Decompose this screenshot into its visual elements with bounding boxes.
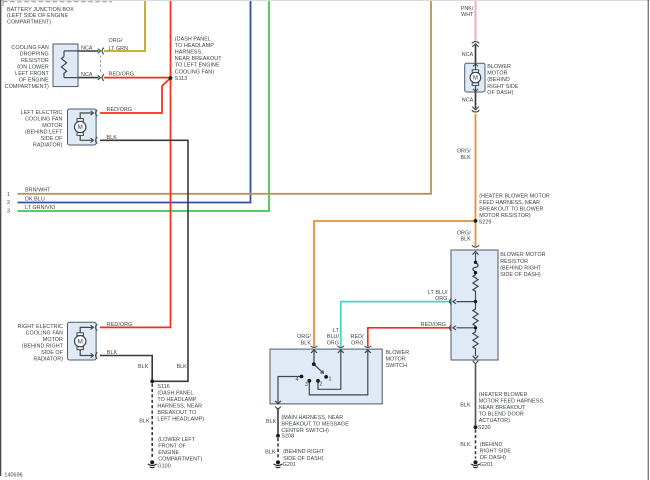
svg-text:RED/ORG: RED/ORG	[107, 107, 133, 113]
svg-text:ENGINE: ENGINE	[158, 450, 179, 456]
svg-text:BLK: BLK	[460, 402, 471, 408]
svg-text:HARNESS,: HARNESS,	[175, 50, 203, 56]
svg-text:RESISTOR: RESISTOR	[500, 259, 528, 265]
svg-text:(BEHIND: (BEHIND	[487, 77, 510, 83]
svg-text:(DASH PANEL: (DASH PANEL	[157, 391, 193, 397]
svg-text:ACTUATOR): ACTUATOR)	[479, 418, 511, 424]
svg-text:COMPARTMENT): COMPARTMENT)	[158, 456, 202, 462]
svg-text:TO LEFT ENGINE: TO LEFT ENGINE	[175, 63, 220, 69]
svg-text:FRONT OF: FRONT OF	[158, 443, 187, 449]
svg-text:(MAIN HARNESS, NEAR: (MAIN HARNESS, NEAR	[281, 415, 343, 421]
svg-text:BLK: BLK	[107, 135, 118, 141]
svg-text:BLOWER: BLOWER	[487, 64, 511, 70]
svg-text:TO HEADLAMP: TO HEADLAMP	[157, 397, 196, 403]
svg-text:S113: S113	[175, 76, 187, 82]
svg-text:S208: S208	[281, 433, 294, 439]
svg-text:RIGHT ELECTRIC: RIGHT ELECTRIC	[17, 324, 63, 330]
svg-text:MOTOR RESISTOR): MOTOR RESISTOR)	[479, 213, 531, 219]
svg-text:RADIATOR): RADIATOR)	[33, 142, 63, 148]
svg-text:4: 4	[296, 377, 299, 383]
svg-text:NCA: NCA	[81, 72, 93, 78]
svg-text:MOTOR: MOTOR	[43, 337, 63, 343]
svg-text:S229: S229	[479, 219, 492, 225]
svg-text:BRN/WHT: BRN/WHT	[25, 188, 51, 194]
svg-text:M: M	[473, 76, 478, 82]
svg-text:G201: G201	[480, 462, 493, 468]
svg-text:RED/ORG: RED/ORG	[109, 71, 135, 77]
svg-text:BREAKOUT TO MESSAGE: BREAKOUT TO MESSAGE	[281, 422, 349, 428]
svg-text:ORG/: ORG/	[457, 149, 471, 155]
svg-text:DROPPING: DROPPING	[20, 52, 49, 58]
svg-text:TO HEADLAMP: TO HEADLAMP	[175, 43, 214, 49]
svg-text:(ON LOWER: (ON LOWER	[17, 65, 49, 71]
svg-text:RIGHT SIDE: RIGHT SIDE	[487, 84, 519, 90]
svg-text:SIDE OF DASH): SIDE OF DASH)	[500, 272, 541, 278]
svg-text:(LOWER LEFT: (LOWER LEFT	[158, 437, 195, 443]
svg-text:ORG/: ORG/	[109, 38, 123, 44]
svg-text:2: 2	[7, 200, 10, 206]
svg-text:NCA: NCA	[462, 52, 474, 58]
svg-text:ORG: ORG	[351, 340, 363, 346]
svg-text:MOTOR: MOTOR	[386, 357, 406, 363]
svg-text:LEFT ELECTRIC: LEFT ELECTRIC	[21, 110, 63, 116]
svg-text:SIDE OF: SIDE OF	[41, 136, 64, 142]
svg-text:BLK: BLK	[301, 340, 312, 346]
svg-text:(HEATER BLOWER MOTOR: (HEATER BLOWER MOTOR	[479, 194, 550, 200]
svg-text:RESISTOR: RESISTOR	[21, 58, 49, 64]
svg-text:(BEHIND LEFT: (BEHIND LEFT	[25, 129, 63, 135]
svg-text:BREAKOUT TO: BREAKOUT TO	[157, 410, 196, 416]
svg-text:BLK: BLK	[265, 449, 276, 455]
svg-text:COMPARTMENT): COMPARTMENT)	[7, 20, 51, 26]
svg-text:LT GRN/VIO: LT GRN/VIO	[25, 205, 56, 211]
svg-text:ORG/: ORG/	[457, 231, 471, 237]
svg-text:(BEHIND RIGHT: (BEHIND RIGHT	[500, 265, 542, 271]
svg-text:NEAR BREAKOUT: NEAR BREAKOUT	[479, 405, 526, 411]
svg-text:ORG/: ORG/	[297, 334, 311, 340]
svg-text:PNK/: PNK/	[461, 6, 474, 12]
svg-text:G100: G100	[157, 463, 170, 469]
svg-text:(BEHIND RIGHT: (BEHIND RIGHT	[22, 343, 64, 349]
svg-text:BLK: BLK	[107, 350, 118, 356]
svg-text:(DASH PANEL: (DASH PANEL	[175, 36, 211, 42]
svg-text:RED/: RED/	[351, 334, 365, 340]
svg-text:OF ENGINE: OF ENGINE	[19, 78, 49, 84]
svg-text:(BEHIND RIGHT: (BEHIND RIGHT	[283, 449, 325, 455]
svg-text:BLK: BLK	[460, 237, 471, 243]
svg-text:BLK: BLK	[138, 364, 149, 370]
svg-text:COOLING FAN: COOLING FAN	[25, 116, 62, 122]
svg-text:OF DASH): OF DASH)	[487, 90, 513, 96]
svg-text:BLK: BLK	[139, 419, 150, 425]
svg-text:SIDE OF: SIDE OF	[41, 350, 64, 356]
svg-text:MOTOR FEED HARNESS,: MOTOR FEED HARNESS,	[479, 399, 545, 405]
svg-text:ORG: ORG	[435, 296, 447, 302]
svg-text:(HEATER BLOWER: (HEATER BLOWER	[479, 392, 528, 398]
svg-text:LEFT FRONT: LEFT FRONT	[15, 71, 49, 77]
svg-text:LT BLU/: LT BLU/	[428, 290, 448, 296]
svg-text:COOLING FAN: COOLING FAN	[26, 330, 63, 336]
svg-text:S230: S230	[478, 425, 491, 431]
svg-text:BLK: BLK	[460, 442, 471, 448]
svg-text:SWITCH: SWITCH	[386, 363, 408, 369]
svg-text:(LEFT SIDE OF ENGINE: (LEFT SIDE OF ENGINE	[7, 13, 68, 19]
svg-text:LEFT HEADLAMP): LEFT HEADLAMP)	[157, 417, 204, 423]
svg-text:BREAKOUT TO BLOWER: BREAKOUT TO BLOWER	[479, 207, 543, 213]
svg-text:DK BLU: DK BLU	[25, 196, 45, 202]
svg-text:OF DASH): OF DASH)	[480, 455, 506, 461]
svg-text:BLK: BLK	[176, 364, 187, 370]
svg-text:WHT: WHT	[461, 12, 474, 18]
svg-text:BLOWER: BLOWER	[386, 350, 410, 356]
svg-text:3: 3	[7, 209, 10, 215]
svg-text:G201: G201	[283, 462, 296, 468]
svg-text:BATTERY JUNCTION BOX: BATTERY JUNCTION BOX	[7, 7, 74, 13]
svg-text:COOLING FAN: COOLING FAN	[11, 45, 48, 51]
svg-text:M: M	[78, 124, 83, 131]
svg-text:140696: 140696	[4, 472, 22, 478]
svg-text:BLK: BLK	[266, 419, 277, 425]
svg-text:RADIATOR): RADIATOR)	[33, 356, 63, 362]
svg-text:LT: LT	[333, 328, 340, 334]
svg-text:(BEHIND: (BEHIND	[480, 442, 503, 448]
svg-text:BLOWER MOTOR: BLOWER MOTOR	[500, 252, 545, 258]
svg-text:NCA: NCA	[462, 98, 474, 104]
svg-text:BLU/: BLU/	[327, 334, 340, 340]
svg-text:MOTOR: MOTOR	[487, 71, 507, 77]
svg-text:COOLING FAN): COOLING FAN)	[175, 69, 214, 75]
svg-text:1: 1	[7, 192, 10, 198]
svg-text:RIGHT SIDE: RIGHT SIDE	[480, 448, 512, 454]
svg-text:COMPARTMENT): COMPARTMENT)	[5, 84, 49, 90]
svg-text:TO BLEND DOOR: TO BLEND DOOR	[479, 411, 524, 417]
svg-text:MOTOR: MOTOR	[42, 123, 62, 129]
svg-text:SIDE OF DASH): SIDE OF DASH)	[283, 456, 324, 462]
svg-text:2: 2	[320, 382, 323, 388]
svg-text:ORG: ORG	[327, 340, 339, 346]
svg-text:3: 3	[305, 382, 308, 388]
svg-text:NEAR BREAKOUT: NEAR BREAKOUT	[175, 56, 222, 62]
svg-text:RED/ORG: RED/ORG	[421, 322, 447, 328]
svg-text:M: M	[78, 338, 83, 345]
svg-text:BLK: BLK	[460, 155, 471, 161]
svg-text:NCA: NCA	[81, 46, 93, 52]
svg-text:FEED HARNESS, NEAR: FEED HARNESS, NEAR	[479, 200, 540, 206]
svg-text:RED/ORG: RED/ORG	[107, 322, 133, 328]
svg-text:S116: S116	[157, 384, 169, 390]
svg-text:HARNESS, NEAR: HARNESS, NEAR	[157, 404, 202, 410]
svg-text:1: 1	[328, 376, 331, 382]
svg-text:LT GRN: LT GRN	[109, 46, 129, 52]
